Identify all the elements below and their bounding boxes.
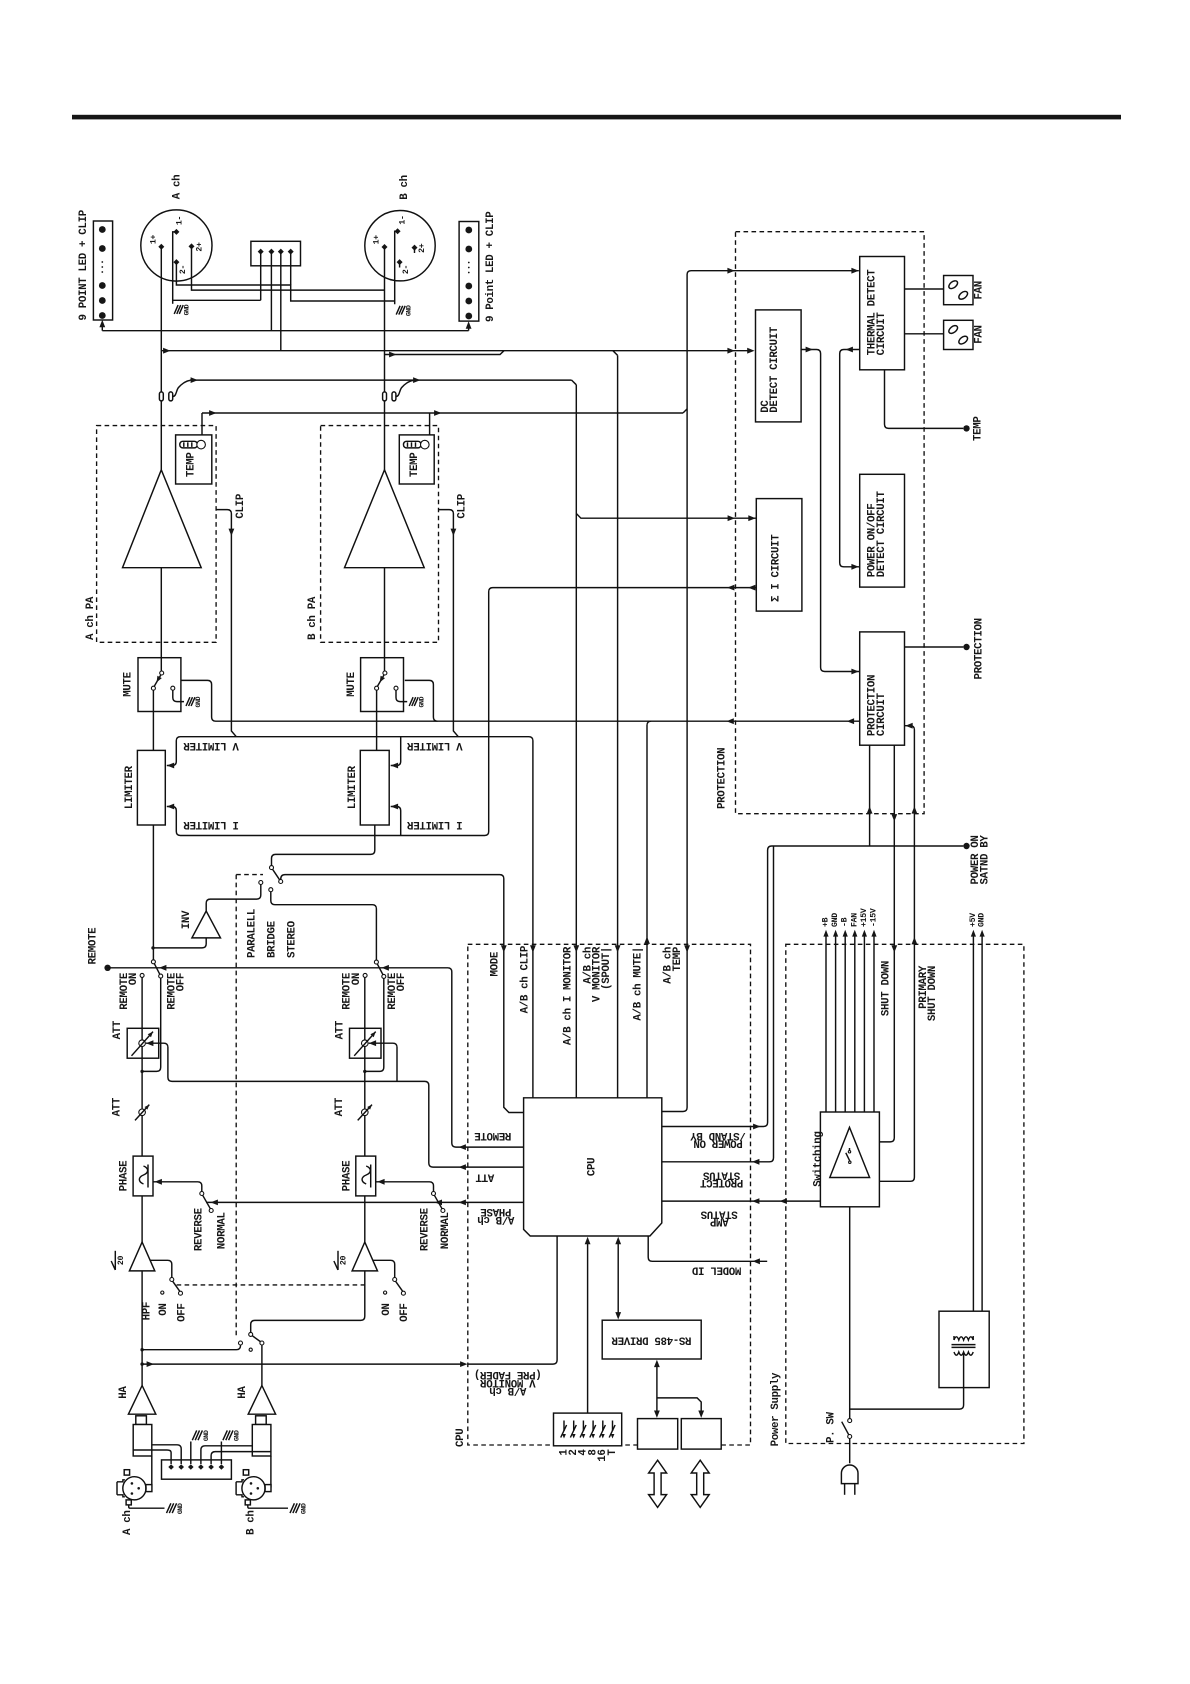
svg-text:GND: GND xyxy=(203,1430,210,1441)
svg-text:PROTECTION: PROTECTION xyxy=(974,618,986,679)
svg-text:9 POINT LED + CLIP: 9 POINT LED + CLIP xyxy=(78,209,90,320)
svg-text:2+: 2+ xyxy=(418,243,427,253)
svg-text:ON: ON xyxy=(158,1304,170,1316)
svg-text:A/B ch: A/B ch xyxy=(490,1384,527,1396)
svg-text:P. SW: P. SW xyxy=(826,1411,838,1443)
svg-text:+15V: +15V xyxy=(860,908,869,927)
svg-text:OFF: OFF xyxy=(176,973,188,991)
svg-text:GND: GND xyxy=(405,305,412,316)
svg-text:ATT: ATT xyxy=(475,1171,494,1183)
svg-text:PARALELL: PARALELL xyxy=(247,909,259,958)
svg-text:ATT: ATT xyxy=(112,1097,124,1116)
svg-text:SHUT DOWN: SHUT DOWN xyxy=(927,966,939,1021)
svg-text:ON: ON xyxy=(351,973,363,985)
svg-text:TEMP: TEMP xyxy=(186,452,198,477)
svg-text:B ch PA: B ch PA xyxy=(307,596,319,640)
svg-text:GND: GND xyxy=(418,696,425,707)
svg-text:CLIP: CLIP xyxy=(457,493,469,518)
svg-text:B ch: B ch xyxy=(399,175,411,200)
svg-text:1-: 1- xyxy=(176,216,185,225)
svg-text:I LIMITER: I LIMITER xyxy=(183,818,239,830)
svg-text:GND: GND xyxy=(195,696,202,707)
svg-text:20: 20 xyxy=(340,1256,349,1266)
svg-text:+5V: +5V xyxy=(969,913,978,927)
svg-text:NORMAL: NORMAL xyxy=(440,1212,452,1249)
svg-text:DETECT CIRCUIT: DETECT CIRCUIT xyxy=(769,326,781,413)
svg-text:A/B ch CLIP: A/B ch CLIP xyxy=(520,945,532,1013)
svg-text:+B: +B xyxy=(822,917,831,927)
svg-text:OFF: OFF xyxy=(396,973,408,991)
svg-text:REVERSE: REVERSE xyxy=(194,1207,206,1251)
svg-text:INV: INV xyxy=(181,910,193,929)
svg-text:PHASE: PHASE xyxy=(119,1160,131,1192)
svg-text:A ch: A ch xyxy=(122,1511,134,1536)
svg-text:LIMITER: LIMITER xyxy=(347,765,359,809)
svg-text:OFF: OFF xyxy=(399,1304,411,1322)
svg-text:V LIMITER: V LIMITER xyxy=(407,739,463,751)
svg-text:REMOTE: REMOTE xyxy=(87,927,99,965)
svg-text:GND: GND xyxy=(978,913,987,927)
svg-text:REVERSE: REVERSE xyxy=(420,1207,432,1251)
svg-text:GND: GND xyxy=(831,913,840,927)
svg-text:SHUT DOWN: SHUT DOWN xyxy=(881,961,893,1016)
svg-text:2+: 2+ xyxy=(195,242,204,252)
svg-text:CPU: CPU xyxy=(587,1158,599,1176)
svg-text:OFF: OFF xyxy=(176,1304,188,1322)
svg-text:TEMP: TEMP xyxy=(972,416,984,441)
svg-text:MODE: MODE xyxy=(489,951,501,976)
svg-text:Switching: Switching xyxy=(813,1132,825,1187)
svg-text:GND: GND xyxy=(183,304,190,315)
svg-text:POWER ON: POWER ON xyxy=(694,1137,743,1149)
svg-text:GND: GND xyxy=(177,1503,184,1514)
svg-text:ATT: ATT xyxy=(112,1020,124,1039)
svg-text:-15V: -15V xyxy=(870,908,879,927)
svg-text:MUTE: MUTE xyxy=(346,671,358,696)
svg-text:TEMP: TEMP xyxy=(672,946,684,971)
svg-text:MODEL ID: MODEL ID xyxy=(691,1263,741,1275)
svg-text:A/B ch MUTE|: A/B ch MUTE| xyxy=(633,947,645,1021)
svg-text:(SPOUT|: (SPOUT| xyxy=(601,947,613,990)
svg-text:A ch PA: A ch PA xyxy=(85,596,97,640)
svg-text:1+: 1+ xyxy=(373,235,382,245)
svg-text:1+: 1+ xyxy=(149,235,158,245)
svg-text:REMOTE: REMOTE xyxy=(474,1129,512,1141)
svg-text:A ch: A ch xyxy=(172,175,184,200)
svg-text:FAN: FAN xyxy=(974,281,986,299)
svg-text:B ch: B ch xyxy=(245,1511,257,1536)
svg-text:A/B ch: A/B ch xyxy=(478,1213,515,1225)
svg-text:CIRCUIT: CIRCUIT xyxy=(876,312,888,356)
svg-text:2-: 2- xyxy=(402,265,411,274)
svg-text:T: T xyxy=(607,1449,619,1456)
svg-text:HA: HA xyxy=(118,1386,130,1399)
svg-text:PROTECT: PROTECT xyxy=(699,1176,743,1188)
svg-text:BRIDGE: BRIDGE xyxy=(267,920,279,958)
svg-text:A/B ch I MONITOR: A/B ch I MONITOR xyxy=(562,946,574,1045)
svg-text:MUTE: MUTE xyxy=(123,671,135,696)
svg-text:2-: 2- xyxy=(179,265,188,274)
svg-text:ON: ON xyxy=(128,973,140,985)
svg-text:RS-485 DRIVER: RS-485 DRIVER xyxy=(611,1334,692,1346)
svg-text:SATND BY: SATND BY xyxy=(980,835,992,885)
svg-text:ON: ON xyxy=(381,1304,393,1316)
svg-text:GND: GND xyxy=(233,1430,240,1441)
svg-text:CIRCUIT: CIRCUIT xyxy=(876,692,888,736)
svg-text:1-: 1- xyxy=(398,215,407,224)
svg-text:LIMITER: LIMITER xyxy=(124,765,136,809)
svg-text:CPU: CPU xyxy=(455,1429,467,1447)
svg-text:ATT: ATT xyxy=(334,1097,346,1116)
svg-text:AMP: AMP xyxy=(709,1215,728,1227)
svg-text:I LIMITER: I LIMITER xyxy=(407,818,463,830)
svg-text:9 Point LED + CLIP: 9 Point LED + CLIP xyxy=(485,211,497,322)
svg-text:V LIMITER: V LIMITER xyxy=(183,739,239,751)
svg-text:HPF: HPF xyxy=(141,1302,153,1320)
svg-text:STEREO: STEREO xyxy=(286,920,298,958)
svg-text:ATT: ATT xyxy=(334,1020,346,1039)
svg-text:FAN: FAN xyxy=(850,913,859,927)
svg-text:20: 20 xyxy=(117,1256,126,1266)
svg-text:Power Supply: Power Supply xyxy=(770,1372,782,1446)
svg-text:CLIP: CLIP xyxy=(235,493,247,518)
svg-text:Σ I CIRCUIT: Σ I CIRCUIT xyxy=(770,534,782,602)
svg-text:FAN: FAN xyxy=(974,325,986,343)
svg-text:TEMP: TEMP xyxy=(409,452,421,477)
svg-text:PROTECTION: PROTECTION xyxy=(717,748,729,809)
svg-text:-B: -B xyxy=(841,917,850,927)
svg-text:NORMAL: NORMAL xyxy=(217,1212,229,1249)
svg-text:HA: HA xyxy=(237,1386,249,1399)
svg-text:PHASE: PHASE xyxy=(341,1160,353,1192)
svg-text:DETECT CIRCUIT: DETECT CIRCUIT xyxy=(876,491,888,578)
svg-text:GND: GND xyxy=(301,1503,308,1514)
